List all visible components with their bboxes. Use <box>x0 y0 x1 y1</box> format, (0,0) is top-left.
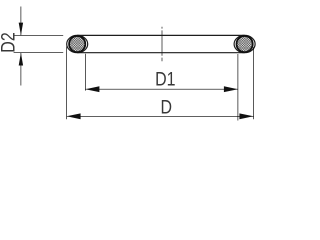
svg-text:D: D <box>161 96 173 118</box>
svg-text:D1: D1 <box>155 68 175 90</box>
svg-text:D2: D2 <box>0 32 19 52</box>
